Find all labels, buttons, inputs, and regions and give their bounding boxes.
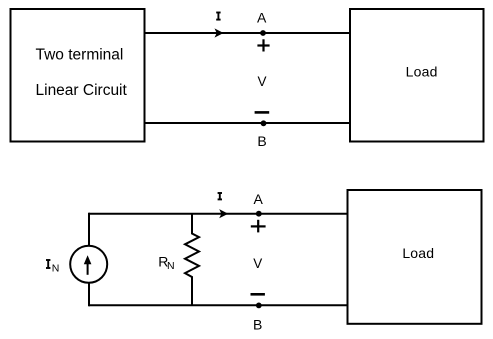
minus sign (top): [255, 111, 270, 114]
arrowhead for current I (top): [215, 28, 224, 37]
wire: top circuit, node B wire: [145, 122, 351, 124]
label RN: [158, 254, 174, 272]
minus sign (bottom): [251, 293, 265, 296]
plus sign (top): [257, 39, 269, 51]
current source IN: [70, 246, 107, 283]
box: Load (bottom): [348, 190, 482, 324]
svg-text:A: A: [257, 10, 267, 26]
svg-text:V: V: [257, 74, 266, 89]
svg-text:A: A: [254, 191, 264, 207]
arrowhead for current I (bottom): [219, 209, 228, 218]
svg-text:Load: Load: [406, 64, 438, 80]
svg-text:V: V: [253, 256, 262, 271]
node B (bottom): [256, 303, 262, 309]
box: Load (top): [350, 9, 484, 142]
label I (bottom): [218, 193, 222, 199]
wire: bottom circuit bottom rail: [89, 304, 348, 306]
svg-text:Load: Load: [402, 245, 434, 261]
wire: left vertical bottom segment: [88, 283, 90, 307]
wire: left vertical top segment: [88, 213, 90, 246]
svg-text:N: N: [167, 260, 175, 272]
node A (bottom): [256, 211, 262, 217]
resistor RN: [185, 214, 199, 306]
svg-text:B: B: [257, 133, 266, 149]
plus sign (bottom): [251, 220, 266, 233]
svg-text:Linear Circuit: Linear Circuit: [36, 82, 128, 99]
svg-text:N: N: [52, 262, 60, 274]
svg-text:Two terminal: Two terminal: [36, 47, 124, 64]
node B (top): [261, 120, 267, 126]
svg-text:B: B: [253, 316, 262, 332]
label IN: [46, 260, 59, 274]
node A (top): [260, 30, 266, 36]
label I (top): [216, 13, 220, 20]
wire: bottom circuit top rail: [89, 213, 348, 215]
box: Two terminal Linear Circuit: [11, 9, 145, 142]
wire: top circuit, node A wire: [145, 32, 351, 34]
